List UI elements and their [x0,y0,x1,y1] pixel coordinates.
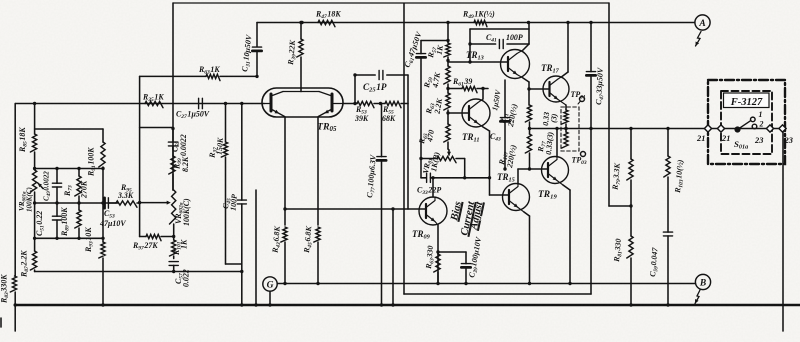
terminal diamond 21 outer [704,125,711,132]
wire stub x=34.6 top [33,102,36,134]
test point TP01 [578,97,585,105]
svg-text:S01a: S01a [734,139,748,151]
label R101 1K [172,239,189,256]
wire TR09 collector [431,176,434,197]
label C57 0.022 [174,269,191,287]
label C55 0.0022 [171,134,189,156]
wire inner box left edge x=404 [403,4,405,295]
svg-text:3.3K: 3.3K [117,191,134,200]
label R61 39 [452,77,472,88]
wire G-B line y=283.5 [278,283,696,285]
svg-text:1µ50V: 1µ50V [490,88,503,111]
resistor R63b 1K [206,74,220,80]
label contact 2 [759,120,764,129]
label C61 47u50V [402,30,425,69]
svg-text:B: B [699,278,706,288]
svg-text:C49 0.0022: C49 0.0022 [43,171,53,201]
svg-text:TR05: TR05 [317,122,337,134]
resistor R81 330 [627,206,633,307]
wire y=271.5 [35,270,244,273]
label R45 6.8K [302,225,315,254]
label C47 33u50V [594,67,607,105]
label R43 6.8K [270,225,283,254]
resistor R45 6.8K [314,227,320,285]
label TR13 [466,50,484,62]
wire VR01 jog to C33 row [456,159,466,180]
svg-text:68K: 68K [382,114,396,123]
label R53 39K [354,105,369,123]
wire R79 jog [609,204,633,207]
svg-text:TR11: TR11 [462,132,479,144]
wire TR11 collector [482,89,484,100]
capacitor C25 1P [379,70,383,79]
svg-text:A: A [698,19,705,29]
svg-text:47µ10V: 47µ10V [99,219,126,228]
label R89 100K [60,207,71,237]
wire inner box bottom edge [404,293,591,295]
svg-text:R87 2.2K: R87 2.2K [20,250,31,278]
label contact 1 [759,110,763,119]
svg-text:R85 18K: R85 18K [18,127,29,153]
label C43 1u50V [490,88,503,142]
wire top border [173,2,609,4]
node rail junction x=591 [589,21,592,24]
dashed box test points [561,107,579,151]
label pin 23 inner [754,136,763,145]
label C27 1u50V [176,110,210,121]
node G terminal [263,277,277,307]
wire C53-R95 [108,202,116,204]
label TR05 [317,122,337,134]
capacitor C59 0.047 [663,232,672,307]
capacitor C61 47u50V [416,41,425,178]
wire TR19 base [530,168,548,170]
resistor R71 220(1/2) [525,105,531,134]
wire y=168.5 row A [33,167,103,170]
svg-text:1K: 1K [435,44,446,55]
label 0.33 (3) [541,112,559,127]
label S01a [734,139,748,151]
svg-text:R81 330: R81 330 [612,238,625,263]
capacitor C51 0.22 [52,203,61,238]
wire y=209 TR09 base [285,208,425,210]
label pin 21 inner [721,134,730,143]
svg-text:TR19: TR19 [538,190,557,201]
svg-text:2: 2 [759,120,764,129]
wire output rail y=128.5 [529,128,784,130]
svg-text:R93 10K: R93 10K [84,227,95,253]
svg-text:F-3127: F-3127 [730,97,763,108]
label C49 0.0022 [43,171,53,201]
svg-text:150K: 150K [215,137,226,156]
label C31 10u50V [240,34,255,73]
svg-text:21: 21 [721,134,730,143]
connector F-3127 inner box [721,91,772,154]
svg-text:39K: 39K [354,114,369,123]
resistor R91 100K [99,129,105,238]
wire column x=256 [254,190,257,307]
wire TR13 emitter to R71 [523,78,529,105]
wire y=237 R97 row [140,236,146,238]
svg-text:220(½): 220(½) [506,103,519,129]
transistor TR13 [501,50,530,79]
wire bus right drop x=783 [782,131,784,331]
resistor R35 1K [145,101,163,107]
svg-text:G: G [267,280,274,290]
svg-text:C59 0.047: C59 0.047 [648,246,661,277]
label R93 10K [84,227,95,253]
resistor R47 18K [318,20,335,26]
svg-text:TP01: TP01 [571,90,586,101]
svg-text:23: 23 [784,136,793,145]
svg-text:220(½): 220(½) [505,144,518,170]
node rail junction x=448 [446,21,449,24]
svg-text:0.022: 0.022 [182,269,191,287]
connector F-3127 outer box [708,80,785,164]
resistor R79 3.3K [627,127,633,206]
resistor R93 10K [99,238,105,306]
label TR09 [412,229,431,241]
wire TR17 base feed [527,87,549,90]
wire y=62 TR13 base [448,61,508,63]
wire C41 loop top y=29 [468,29,529,64]
label R39 22K [286,39,299,66]
svg-text:R61 39: R61 39 [452,77,472,88]
label 270K [80,180,89,199]
transistor TR09 [419,197,447,225]
label VR01 1K(B) [421,151,441,175]
label R81 330 [612,238,625,263]
label R65 470 [417,129,436,146]
svg-text:2.2K: 2.2K [432,97,444,115]
label C33 22P [417,186,441,197]
svg-text:0.33(3): 0.33(3) [544,131,555,155]
resistor R87 2.2K [30,203,36,272]
wire TR15 base [490,194,510,196]
resistor R57 1K [444,23,450,67]
label pin 21 outer [696,134,705,143]
wire y=129 [35,128,103,130]
potentiometer VR602a 100K(C) [140,190,176,240]
label R95 3.3K [117,183,134,200]
resistor R59 4.7K [444,66,450,93]
test point TP03 [581,152,586,157]
svg-text:21: 21 [696,134,705,143]
wire TR11 base stub [448,112,469,114]
svg-text:1: 1 [759,110,763,119]
capacitor C27 1u50V [199,98,203,108]
svg-text:R45 6.8K: R45 6.8K [302,225,315,254]
label R35 1K [142,93,164,104]
label R37 150K [207,137,225,160]
capacitor C39 100u10V [461,252,470,285]
svg-text:C51 0.22: C51 0.22 [35,211,46,236]
wire ground bus y=305 [15,304,800,307]
terminal diamond 21 inner [717,125,724,132]
svg-text:100P: 100P [229,194,239,212]
svg-text:0.0022: 0.0022 [179,134,188,156]
wire TR17 emitter [565,105,567,110]
wire supply rail A y=22.5 [257,22,695,24]
label C39 100u10V [467,236,485,279]
resistor R63e 330 [434,254,440,284]
svg-text:R91 100K: R91 100K [87,147,98,177]
svg-text:R39 22K: R39 22K [286,39,299,66]
label VR602a 100K(C) [174,198,191,226]
capacitor C41 100P [499,39,503,48]
node R37/C45 junctions [224,102,244,105]
label R49 1K(1/2) [462,10,495,21]
wire TR19 emitter column [563,185,572,285]
label R79 3.3K [610,162,623,191]
label R63 2.2K [424,97,444,115]
svg-text:TR15: TR15 [497,172,515,184]
label TP03 [572,156,587,167]
resistor R107 220(1/2) [525,134,531,171]
label R55 68K [382,105,396,123]
capacitor C55 0.0022 [168,142,177,146]
wire y=127.5 to C55 [140,127,173,129]
node dots rail 128.5 [564,127,567,130]
svg-text:R73: R73 [63,185,74,197]
svg-text:TR09: TR09 [412,229,431,241]
label R87 2.2K [20,250,31,278]
wire C55 gap fill [172,129,174,157]
svg-text:23: 23 [754,136,763,145]
resistor R55 68K [385,101,408,107]
label R63 1K [198,65,220,76]
node dots rail A [300,21,303,24]
svg-text:470: 470 [425,129,436,143]
label C25 1P [363,82,387,94]
svg-text:R79 3.3K: R79 3.3K [610,162,623,191]
svg-text:C39 100µ10V: C39 100µ10V [467,236,485,279]
wire TR17 collector [562,21,570,77]
svg-text:R49 1K(½): R49 1K(½) [462,10,495,21]
svg-text:1K(B): 1K(B) [429,151,441,172]
transistor TR11 [462,99,490,127]
label R103 10(1/2) [673,159,687,194]
label R59 4.7K [422,71,442,89]
svg-text:TP03: TP03 [572,156,587,167]
wire left border column x=173 [172,3,174,190]
terminal diamond 23 inner [766,125,773,132]
svg-text:8.2K: 8.2K [181,156,190,172]
resistor R101 1K [170,240,176,259]
capacitor C77 100u6.3V [377,104,386,307]
resistor R53 39K [357,101,385,107]
wire y=88.5 R61 row [448,88,462,90]
transistor TR05 (dual) [262,88,343,117]
svg-text:C33 22P: C33 22P [417,186,441,197]
label R77 0.33(3) [536,131,555,155]
svg-text:100K(C): 100K(C) [182,198,191,226]
svg-text:R43 6.8K: R43 6.8K [270,225,283,254]
label R73 [63,185,74,197]
svg-text:R89 100K: R89 100K [60,207,71,237]
wire TR05 right emitter column x=318 [317,117,319,225]
label Bias Current Adjust [449,200,486,237]
svg-text:4.7K: 4.7K [430,71,442,89]
resistor R37 150K [221,104,242,265]
label pin 23 outer [784,136,793,145]
resistor R103 10(1/2) [664,127,670,232]
label C77 100u6.3V [365,154,379,198]
wire left column x=15 [14,104,16,277]
capacitor C43 1u50V [500,80,509,171]
capacitor C31 10u50V [252,23,261,79]
svg-text:100P: 100P [506,33,523,42]
node A terminal [695,15,710,46]
potentiometer VR601a 100K(C) [30,170,43,203]
svg-text:C27 1µ50V: C27 1µ50V [176,110,210,121]
label C53 47u10V [99,209,126,228]
resistor R63 2.2K [444,93,450,124]
capacitor C53 47u10V [105,198,109,208]
svg-text:C61 47µ50V: C61 47µ50V [402,30,425,69]
resistor 0.33(3) upper [562,110,568,132]
potentiometer VR01 1K(B) [419,150,456,163]
wire TR09 emitter column [436,225,439,285]
wire TR05 left emitter column x=285 [283,117,286,225]
wire TR13 collector [523,23,529,51]
wire TR15 emitter down [524,212,531,285]
node B terminal [695,274,711,303]
wire input line y=103.5 [15,103,264,105]
node dots bus [14,303,17,306]
wire right border column x=609 (B+) [608,3,610,206]
svg-text:C25 1P: C25 1P [363,82,387,94]
label R91 100K [87,147,98,177]
wire C39 branch [438,251,466,253]
wire TR19 collector [555,127,558,157]
switch S01a [734,117,756,133]
svg-text:(3): (3) [549,113,559,123]
wire column x=139.6 [138,76,141,236]
resistor R97 27K [146,234,174,240]
svg-text:270K: 270K [80,180,89,199]
wire column x=393 to bus [391,207,394,306]
resistor R49 1K(1/2) [474,20,530,26]
svg-text:R97 27K: R97 27K [132,241,158,252]
label R99 8.2K [173,156,191,172]
wire TR05 out y=103.5 [343,102,382,105]
wire x=408 column [407,75,409,209]
resistor R39 22K [297,21,303,92]
wire TR15 collector to TR19 base [518,169,530,184]
svg-text:TR13: TR13 [466,50,484,62]
wire y=203 row B [33,201,118,204]
label R83 330K [0,274,10,304]
svg-text:TR17: TR17 [541,63,560,75]
svg-text:C41: C41 [486,33,497,44]
wire left margin tick [0,318,2,327]
svg-text:C43: C43 [490,132,501,143]
wire TR11 emitter column [483,127,490,195]
label TR11 [462,132,479,144]
resistor R99 8.2K [169,156,175,190]
wire y=76.4 R63 row [140,75,257,77]
terminal diamond 23 outer [779,125,786,132]
wire C25 branch [353,73,408,103]
svg-text:R83 330K: R83 330K [0,274,10,304]
label C59 0.047 [648,246,661,277]
resistor R95 3.3K [116,201,140,207]
label TR15 [497,172,515,184]
wire bus left drop [14,305,16,331]
wire C41 row y=44 [468,42,529,45]
transistor TR19 [542,157,569,186]
transistor TR17 [543,76,569,105]
resistor R77 0.33(3) [562,132,568,148]
label R71 220(1/2) [498,103,519,129]
label C45 100P [221,194,239,212]
label box F-3127 [724,93,770,108]
label R85 18K [18,127,29,153]
resistor R89 100K [75,203,81,238]
svg-text:100K(C): 100K(C) [26,187,34,212]
label R63 330 [424,245,437,270]
label R97 27K [132,241,158,252]
label R107 220(1/2) [497,144,518,170]
capacitor C57 0.022 [169,262,178,272]
node junction x=173 C55 feed [171,127,174,130]
resistor R83 330K [10,276,16,305]
svg-text:R47 18K: R47 18K [315,10,341,21]
label VR601a 100K(C) [18,187,34,212]
svg-text:R103 10(½): R103 10(½) [673,159,687,194]
resistor R73 270K [75,169,81,204]
label C51 0.22 [35,211,46,236]
svg-text:1K: 1K [180,239,189,249]
wire C61 top [421,39,450,42]
capacitor C47 33u50V [586,23,595,295]
label C41 100P [486,33,523,44]
transistor TR15 [503,184,530,213]
svg-text:C47 33µ50V: C47 33µ50V [594,67,607,105]
capacitor C33 22P [421,173,491,182]
label TR17 [541,63,560,75]
resistor R61 39 [462,86,488,92]
wire y=238.3 row C [35,237,105,240]
label R57 1K [426,44,445,60]
svg-text:C31 10µ50V: C31 10µ50V [240,34,255,73]
label TR19 [538,190,557,201]
resistor R65 470 [444,124,450,150]
label TP01 [571,90,586,101]
resistor R43 6.8K [281,227,287,285]
capacitor C45 100P [237,104,246,307]
resistor R85 18K [30,134,36,169]
capacitor C49 0.0022 [52,169,61,204]
label R47 18K [315,10,341,21]
